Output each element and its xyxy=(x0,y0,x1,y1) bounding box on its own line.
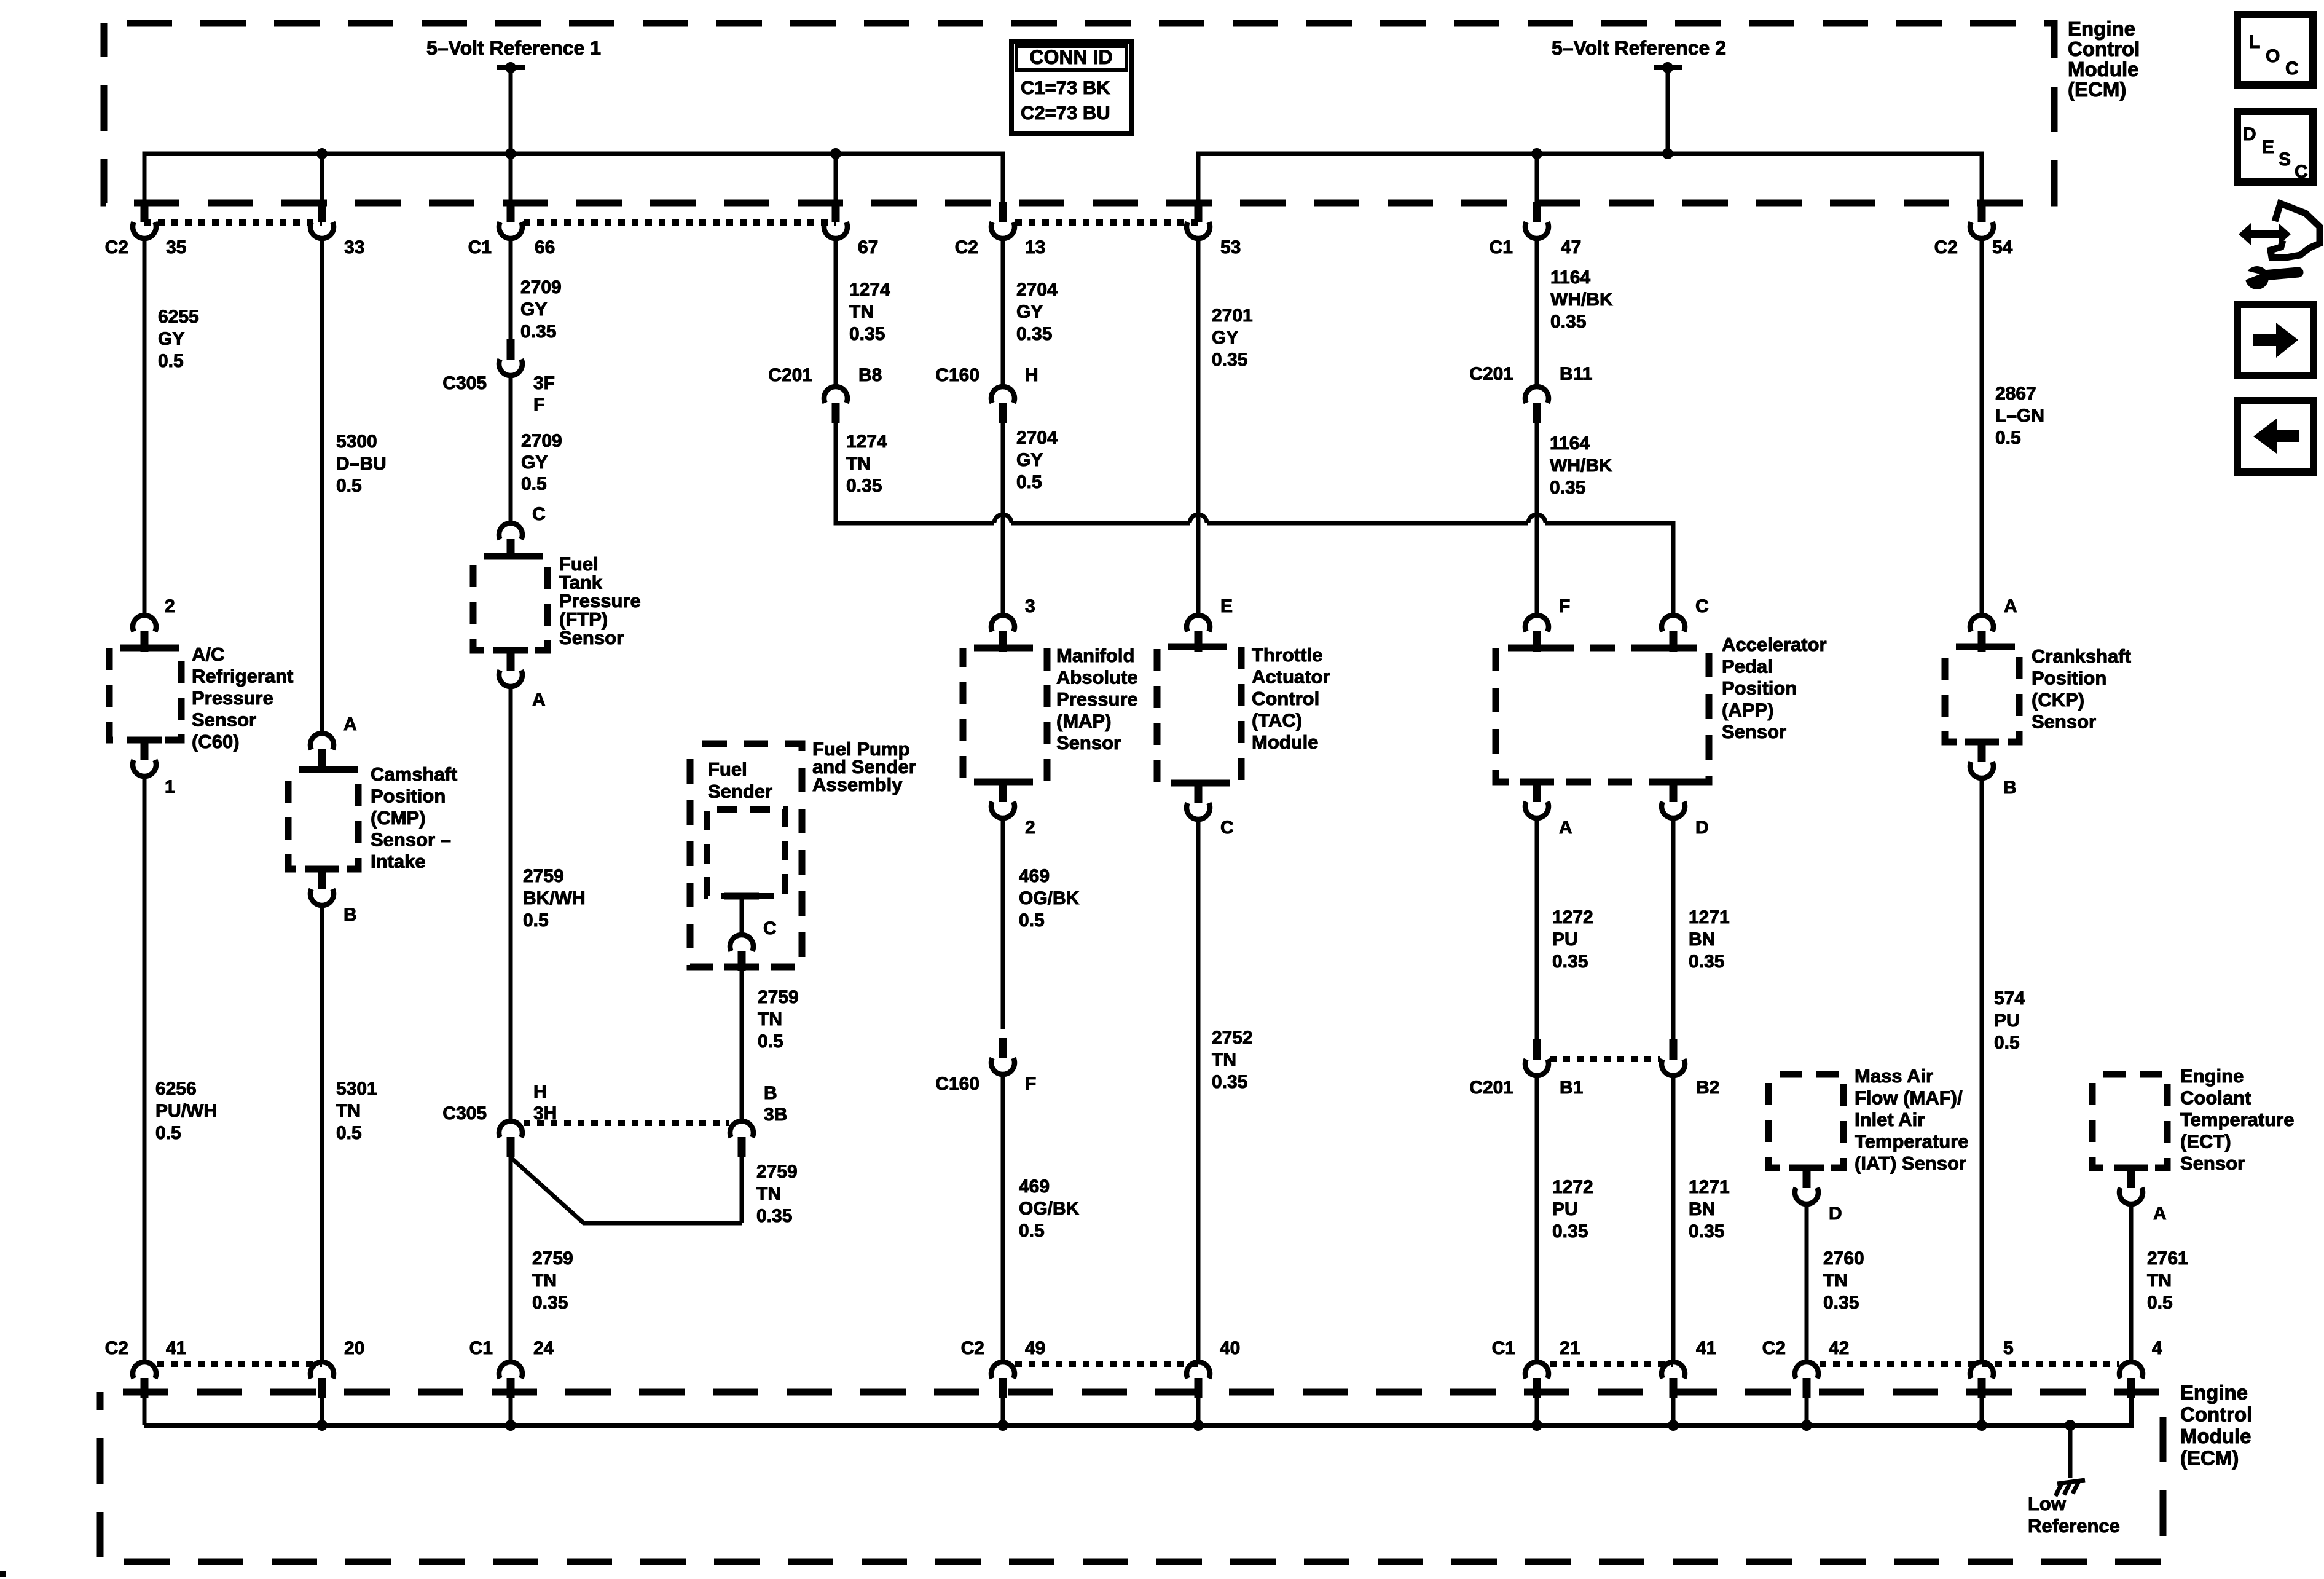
CKP sensor pin A connector xyxy=(1970,615,1993,652)
svg-text:53: 53 xyxy=(1220,237,1241,258)
wire stub pin42 to low-ref bus xyxy=(1805,1398,1809,1425)
svg-text:C201: C201 xyxy=(1469,1077,1513,1098)
ECM pin 49 (C2) connector xyxy=(991,1362,1015,1398)
svg-text:B2: B2 xyxy=(1696,1077,1719,1098)
junction low-ref bus ground stub xyxy=(2065,1420,2076,1431)
Engine Coolant Temperature (ECT) Sensor box xyxy=(2092,1074,2167,1168)
wire hop over 1164 wire xyxy=(1528,514,1545,523)
wire stub pin40 to low-ref bus xyxy=(1196,1398,1201,1425)
svg-text:C2: C2 xyxy=(1934,237,1958,258)
inline connector C201 pin B2 xyxy=(1662,1039,1685,1076)
ECM pin 40 connector xyxy=(1187,1362,1210,1398)
APP sensor pin C connector xyxy=(1662,615,1685,652)
Crankshaft Position (CKP) Sensor box xyxy=(1945,647,2019,742)
wire 2704 GY lower xyxy=(1001,423,1005,615)
wire 1272 PU lower xyxy=(1535,1076,1539,1362)
svg-text:C: C xyxy=(763,918,777,939)
5-volt reference 1 feed symbol xyxy=(497,62,525,73)
CMP box bottom flange xyxy=(305,866,339,873)
APP box top flange right xyxy=(1656,645,1690,652)
svg-text:C2: C2 xyxy=(1762,1338,1786,1358)
Fuel Sender box xyxy=(707,809,785,896)
svg-text:A: A xyxy=(532,690,546,710)
wire 2709 GY lower xyxy=(509,376,513,521)
A/C sensor box top flange xyxy=(127,645,162,652)
APP box top flange left xyxy=(1520,645,1554,652)
Fuel Pump box bottom flange xyxy=(724,964,759,971)
wire 1271 BN upper xyxy=(1671,818,1676,1041)
svg-text:2: 2 xyxy=(165,596,175,616)
CKP box top flange xyxy=(1965,644,1999,650)
APP box bottom flange right xyxy=(1656,779,1690,786)
svg-text:24: 24 xyxy=(533,1338,554,1358)
svg-text:35: 35 xyxy=(166,237,186,258)
APP sensor pin D connector xyxy=(1662,782,1685,818)
ECM pin 35 connector xyxy=(133,202,156,238)
svg-text:CONN ID: CONN ID xyxy=(1029,46,1112,68)
APP sensor pin A connector xyxy=(1525,782,1549,818)
svg-text:40: 40 xyxy=(1220,1338,1240,1358)
CMP box top flange xyxy=(305,766,339,773)
wire hop over 2704 wire xyxy=(994,514,1011,523)
svg-text:C201: C201 xyxy=(1469,364,1513,384)
svg-text:B: B xyxy=(2003,778,2017,798)
A/C sensor pin 2 connector xyxy=(133,615,156,652)
wire stub pin49 to low-ref bus xyxy=(1001,1398,1005,1425)
svg-text:13: 13 xyxy=(1025,237,1045,258)
TAC box bottom flange xyxy=(1181,780,1215,787)
ECM pin 66 connector xyxy=(499,202,522,238)
svg-text:20: 20 xyxy=(344,1338,364,1358)
svg-text:Fuel Pumpand SenderAssembly: Fuel Pumpand SenderAssembly xyxy=(812,738,916,795)
ECM pin 20 connector xyxy=(310,1362,334,1398)
junction bus2-pin47 xyxy=(1531,148,1542,159)
svg-text:C1=73 BK: C1=73 BK xyxy=(1021,77,1110,98)
svg-text:2: 2 xyxy=(1025,817,1035,838)
wire 2759 TN 0.5 xyxy=(740,971,744,1121)
connector C1 dotted line pins 66-67 xyxy=(524,219,836,226)
svg-text:5–Volt Reference 2: 5–Volt Reference 2 xyxy=(1552,37,1726,59)
A/C sensor pin 1 connector xyxy=(133,740,156,776)
wire 1164 WH/BK lower xyxy=(1535,423,1539,615)
TAC module pin E connector xyxy=(1187,615,1210,652)
ECM pin 47 connector xyxy=(1525,202,1549,238)
ECM pin 53 connector xyxy=(1187,202,1210,238)
wire fuel sender pin C xyxy=(740,896,744,935)
svg-text:H: H xyxy=(1025,365,1038,385)
wire 5V ref 1 stub xyxy=(509,68,513,154)
junction bus2-5Vref2 xyxy=(1662,148,1673,159)
ECM pin 54 connector xyxy=(1970,202,1993,238)
wire stub pin41 to low-ref bus xyxy=(143,1398,147,1425)
Accelerator Pedal Position (APP) Sensor box xyxy=(1496,648,1709,782)
svg-text:C201: C201 xyxy=(768,365,812,385)
Fuel Sender box bottom flange xyxy=(724,893,759,900)
wire stub pin24 to low-ref bus xyxy=(509,1398,513,1425)
inline connector C305 pin 3F xyxy=(499,339,522,376)
wire stub pin41r to low-ref bus xyxy=(1671,1398,1676,1425)
svg-text:F: F xyxy=(1025,1074,1036,1094)
ECM pin 5 connector xyxy=(1970,1362,1993,1398)
wire riser pin 33 xyxy=(320,154,324,204)
junction bus1-pin33 xyxy=(316,148,328,159)
svg-text:21: 21 xyxy=(1560,1338,1580,1358)
svg-text:B1: B1 xyxy=(1560,1077,1583,1098)
CMP sensor pin B connector xyxy=(310,869,334,905)
svg-text:B11: B11 xyxy=(1560,364,1592,384)
svg-text:67: 67 xyxy=(858,237,878,258)
svg-text:C2: C2 xyxy=(105,1338,128,1358)
svg-text:C1: C1 xyxy=(1492,1338,1515,1358)
wire 2752 TN xyxy=(1196,819,1201,1362)
inline connector C305 pin B/3B xyxy=(730,1121,753,1157)
CMP sensor pin A connector xyxy=(310,733,334,770)
ECM pin 67 connector xyxy=(824,202,847,238)
FTP sensor pin C connector xyxy=(499,523,522,559)
svg-text:3F: 3F xyxy=(533,373,555,393)
wire 5300 D-BU xyxy=(320,238,324,733)
wire 2867 L-GN xyxy=(1980,238,1984,615)
junction bus1-5Vref1 xyxy=(505,148,516,159)
wire 5V reference 1 bus xyxy=(144,154,1003,204)
FTP box top flange xyxy=(493,553,528,560)
svg-text:4: 4 xyxy=(2152,1338,2162,1358)
junction low-ref bus x=2501 xyxy=(1531,1420,1542,1431)
svg-text:C2=73 BU: C2=73 BU xyxy=(1021,102,1110,124)
Mass Air Flow (MAF)/IAT Sensor box xyxy=(1769,1074,1843,1168)
inline connector C305 pin H/3H xyxy=(499,1121,522,1157)
connector C2 dotted line pins 49-40 xyxy=(1015,1361,1198,1367)
Camshaft Position (CMP) Sensor box xyxy=(288,770,358,869)
svg-text:66: 66 xyxy=(535,237,555,258)
wire 5301 TN xyxy=(320,905,324,1362)
icon DESC box xyxy=(2237,111,2313,182)
APP sensor pin F connector xyxy=(1525,615,1549,652)
svg-text:42: 42 xyxy=(1829,1338,1849,1358)
svg-text:54: 54 xyxy=(1992,237,2013,258)
svg-text:F: F xyxy=(533,395,544,415)
junction low-ref bus x=831 xyxy=(505,1420,516,1431)
wire riser pin 47 xyxy=(1535,154,1539,204)
svg-text:C2: C2 xyxy=(955,237,978,258)
Fuel Pump and Sender Assembly box xyxy=(690,744,802,967)
svg-text:C160: C160 xyxy=(935,1074,979,1094)
wire 1271 BN lower xyxy=(1671,1076,1676,1362)
svg-text:49: 49 xyxy=(1025,1338,1045,1358)
junction low-ref bus x=3225 xyxy=(1976,1420,1987,1431)
MAF box bottom flange xyxy=(1789,1165,1824,1171)
ECM pin 41 connector xyxy=(1662,1362,1685,1398)
svg-text:H: H xyxy=(533,1082,547,1102)
ECM pin 24 (C1) connector xyxy=(499,1362,522,1398)
CONN ID box xyxy=(1011,41,1131,133)
icon right arrow box xyxy=(2237,304,2314,376)
svg-text:B8: B8 xyxy=(858,365,882,385)
junction low-ref bus x=1632 xyxy=(997,1420,1008,1431)
ECM pin 33 connector xyxy=(310,202,334,238)
ECM top dashed box xyxy=(104,23,2054,203)
connector C2 dotted line pins 41-20 xyxy=(157,1361,322,1367)
ECM bottom dashed box xyxy=(100,1392,2163,1562)
svg-text:B: B xyxy=(343,905,357,925)
inline connector C201 pin B1 xyxy=(1525,1039,1549,1076)
svg-text:C2: C2 xyxy=(105,237,128,258)
svg-text:C: C xyxy=(532,504,546,524)
svg-text:C2: C2 xyxy=(961,1338,984,1358)
wire branch 3H to 3B node xyxy=(511,1157,742,1223)
A/C sensor box bottom flange xyxy=(127,737,162,744)
inline connector C160 pin H xyxy=(991,387,1015,423)
svg-text:C305: C305 xyxy=(442,373,487,393)
wire hop over 2701 wire xyxy=(1190,514,1207,523)
FTP box bottom flange xyxy=(493,647,528,654)
TAC module pin C connector xyxy=(1187,783,1210,819)
svg-text:A: A xyxy=(1559,817,1572,838)
junction low-ref bus x=2723 xyxy=(1668,1420,1679,1431)
connector C201 dotted line B1-B2 xyxy=(1550,1056,1660,1062)
Fuel Tank Pressure (FTP) Sensor box xyxy=(473,556,548,650)
svg-text:E: E xyxy=(1220,596,1233,616)
svg-text:3B: 3B xyxy=(764,1105,787,1125)
wire 2759 BK/WH xyxy=(509,687,513,1121)
wire 6256 PU/WH xyxy=(143,776,147,1362)
MAP box top flange xyxy=(986,645,1020,652)
svg-text:ThrottleActuatorControl(TAC)Mo: ThrottleActuatorControl(TAC)Module xyxy=(1252,644,1330,753)
Manifold Absolute Pressure (MAP) Sensor box xyxy=(963,648,1047,782)
svg-text:C305: C305 xyxy=(442,1103,487,1124)
wire 2709 GY upper xyxy=(509,238,513,339)
svg-text:C1: C1 xyxy=(469,1338,493,1358)
wire 2701 GY xyxy=(1196,238,1201,615)
svg-text:33: 33 xyxy=(344,237,364,258)
svg-text:A: A xyxy=(2004,596,2017,616)
wire stub pin5 to low-ref bus xyxy=(1980,1398,1984,1425)
ECM pin 13 connector xyxy=(991,202,1015,238)
connector C1 dotted line pins 21-41 xyxy=(1550,1361,1673,1367)
scan artifact bottom-left xyxy=(0,1571,6,1577)
inline connector C201 pin B11 xyxy=(1525,387,1549,423)
Throttle Actuator Control (TAC) Module box xyxy=(1157,647,1241,783)
wire 2761 TN xyxy=(2129,1204,2134,1362)
ECT pin A connector xyxy=(2119,1168,2143,1204)
MAP box bottom flange xyxy=(986,779,1020,786)
wire 2759 TN 0.35 to pin 24 xyxy=(509,1157,513,1362)
svg-text:B: B xyxy=(764,1083,777,1103)
TAC box top flange xyxy=(1181,644,1215,650)
MAP sensor pin 2 connector xyxy=(991,782,1015,818)
icon vehicle with data link and wrench xyxy=(2239,203,2320,289)
svg-text:C1: C1 xyxy=(468,237,492,258)
ECM pin 21 (C1) connector xyxy=(1525,1362,1549,1398)
wire 1274 TN upper xyxy=(834,238,838,387)
inline connector C201 pin B8 xyxy=(824,387,847,423)
connector C305 dotted line H-B xyxy=(524,1120,729,1126)
junction low-ref bus x=1950 xyxy=(1193,1420,1204,1431)
wire 1272 PU upper xyxy=(1535,818,1539,1041)
CKP sensor pin B connector xyxy=(1970,742,1993,778)
wire low reference bus xyxy=(144,1398,2131,1425)
wire 469 OG/BK upper xyxy=(1001,818,1005,1029)
ECM pin 41 (C2) connector xyxy=(133,1362,156,1398)
svg-text:41: 41 xyxy=(166,1338,186,1358)
ECT box bottom flange xyxy=(2114,1165,2148,1171)
icon LOC box xyxy=(2237,15,2313,85)
junction low-ref bus x=2940 xyxy=(1801,1420,1812,1431)
svg-text:5–Volt Reference 1: 5–Volt Reference 1 xyxy=(426,37,601,59)
Fuel Sender pin C connector xyxy=(730,935,753,971)
wire 1164 WH/BK upper xyxy=(1535,238,1539,385)
svg-text:F: F xyxy=(1559,596,1570,616)
svg-text:3: 3 xyxy=(1025,596,1035,616)
ECM pin 4 connector xyxy=(2119,1362,2143,1398)
CKP box bottom flange xyxy=(1965,739,1999,746)
wire 6255 GY xyxy=(143,238,147,615)
svg-text:D: D xyxy=(1829,1203,1842,1224)
svg-text:D: D xyxy=(1695,817,1709,838)
wire stub pin21 to low-ref bus xyxy=(1535,1398,1539,1425)
MAF/IAT pin D connector xyxy=(1795,1168,1818,1204)
wire stub pin20 to low-ref bus xyxy=(320,1398,324,1425)
wire riser pin 66 xyxy=(509,154,513,204)
junction bus1-pin67 xyxy=(830,148,841,159)
svg-text:A: A xyxy=(343,714,357,734)
svg-text:47: 47 xyxy=(1561,237,1581,258)
svg-text:C: C xyxy=(1220,817,1234,838)
svg-text:C: C xyxy=(1695,596,1709,616)
connector C2 dotted line pins 13-53 xyxy=(1015,219,1198,226)
connector C2 dotted line pins 42-5-4 xyxy=(1820,1361,2119,1367)
5-volt reference 2 feed symbol xyxy=(1654,62,1682,73)
svg-text:1: 1 xyxy=(165,777,175,797)
ECM pin 42 (C2) connector xyxy=(1795,1362,1818,1398)
inline connector C160 pin F xyxy=(991,1038,1015,1074)
wire 574 PU xyxy=(1980,778,1984,1362)
wire 5V ref 2 stub xyxy=(1666,68,1670,154)
wire 2760 TN xyxy=(1805,1204,1809,1362)
svg-text:A: A xyxy=(2153,1203,2167,1224)
wire 5V reference 2 bus xyxy=(1198,154,1982,204)
APP box bottom flange left xyxy=(1520,779,1554,786)
A/C Refrigerant Pressure Sensor box (C60) xyxy=(109,648,181,740)
svg-text:C160: C160 xyxy=(935,365,979,385)
wire 1274 TN horizontal run to APP pin C xyxy=(836,423,994,523)
wire 2704 GY upper xyxy=(1001,238,1005,387)
junction low-ref bus x=524 xyxy=(316,1420,328,1431)
FTP sensor pin A connector xyxy=(499,650,522,687)
low reference ground symbol xyxy=(2055,1480,2085,1496)
svg-text:C1: C1 xyxy=(1490,237,1513,258)
wire riser pin 67 xyxy=(834,154,838,204)
wire low reference ground stub xyxy=(2068,1425,2073,1478)
svg-text:41: 41 xyxy=(1696,1338,1716,1358)
MAP sensor pin 3 connector xyxy=(991,615,1015,652)
icon left arrow box xyxy=(2237,401,2314,472)
wire 469 OG/BK lower xyxy=(1001,1074,1005,1362)
svg-text:5: 5 xyxy=(2003,1338,2014,1358)
wire stub 3B to junction xyxy=(740,1157,744,1223)
connector C2 dotted line pins 35-33 xyxy=(144,219,322,226)
